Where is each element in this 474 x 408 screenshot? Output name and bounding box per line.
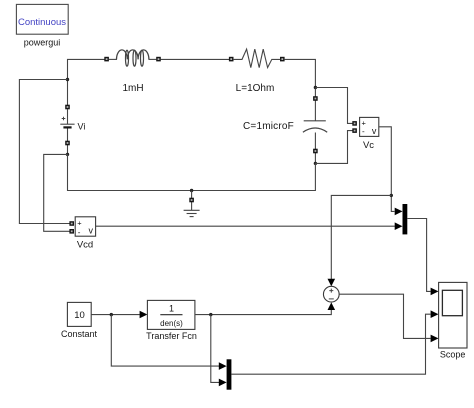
svg-text:v: v <box>88 225 93 235</box>
arrowhead into right mux upper input <box>395 208 403 216</box>
wire capacitor bottom to Vc minus <box>315 131 353 164</box>
svg-text:1: 1 <box>169 304 174 314</box>
wire resistor to capacitor top <box>284 59 315 86</box>
arrowhead into scope input 2 <box>431 310 439 318</box>
resistor L=1Ohm <box>230 49 284 68</box>
arrowhead into right mux lower input <box>395 222 403 230</box>
svg-text:10: 10 <box>74 310 85 321</box>
svg-text:C=1microF: C=1microF <box>243 121 294 132</box>
wire junction to Vcd plus input <box>19 80 70 224</box>
svg-text:-: - <box>362 127 365 136</box>
wire bottom rail <box>68 154 316 190</box>
svg-text:L=1Ohm: L=1Ohm <box>236 83 275 94</box>
wire branch to sum plus input <box>331 195 391 279</box>
wire transfer fcn junction to bottom mux lower input <box>211 315 219 383</box>
node Vc branch junction <box>390 194 393 197</box>
svg-text:powergui: powergui <box>24 38 61 48</box>
arrowhead into scope input 3 <box>431 335 439 343</box>
mux right <box>403 204 408 234</box>
svg-text:Continuous: Continuous <box>18 17 66 28</box>
svg-text:Vi: Vi <box>78 122 86 132</box>
wire sum output to scope input 3 <box>339 294 430 338</box>
svg-text:Vc: Vc <box>363 140 374 151</box>
wire Vc output down to right mux upper input <box>379 127 395 212</box>
svg-text:den(s): den(s) <box>160 319 183 328</box>
svg-text:v: v <box>372 126 377 136</box>
sum block <box>323 286 339 302</box>
node battery bottom junction <box>66 153 69 156</box>
mux bottom <box>227 359 232 389</box>
node constant junction <box>110 313 113 316</box>
voltmeter Vc <box>353 117 379 136</box>
arrowhead into bottom mux upper input <box>219 362 227 370</box>
powergui block <box>16 4 68 34</box>
wire battery top to inductor <box>68 59 107 107</box>
svg-text:-: - <box>78 228 81 237</box>
svg-text:Transfer Fcn: Transfer Fcn <box>146 331 197 341</box>
wire capacitor top to Vc plus <box>315 88 353 124</box>
wire Vcd output to right mux lower input <box>96 225 395 227</box>
svg-text:Scope: Scope <box>440 350 466 360</box>
inductor 1mH <box>105 50 160 66</box>
svg-text:+: + <box>77 219 82 228</box>
svg-text:1mH: 1mH <box>122 83 143 94</box>
constant block <box>67 302 91 326</box>
transfer fcn block <box>147 300 195 329</box>
battery Vi <box>60 105 74 154</box>
arrowhead into sum top <box>328 279 336 287</box>
node battery-top junction <box>66 78 69 81</box>
svg-text:Constant: Constant <box>61 329 98 339</box>
wire inductor to resistor <box>161 58 230 60</box>
wire right mux output to scope input 1 <box>407 219 430 292</box>
node capacitor bottom <box>314 162 317 165</box>
node capacitor top <box>314 86 317 89</box>
wire constant junction to bottom mux upper input <box>111 315 219 367</box>
node transfer fcn junction <box>209 313 212 316</box>
node ground junction <box>190 189 193 192</box>
arrowhead into sum bottom <box>328 302 336 310</box>
wire bottom mux output to scope input 2 <box>231 314 430 374</box>
ground symbol <box>184 191 200 217</box>
arrowhead into bottom mux lower input <box>219 379 227 387</box>
wire transfer fcn output to sum bottom <box>195 310 331 315</box>
voltmeter Vcd <box>70 217 96 237</box>
capacitor C1 <box>303 89 327 163</box>
svg-text:Vcd: Vcd <box>77 240 93 251</box>
arrowhead into transfer fcn <box>140 311 148 319</box>
wire constant to transfer fcn <box>91 314 140 316</box>
arrowhead into scope input 1 <box>431 288 439 296</box>
scope block <box>439 282 467 348</box>
wire junction to Vcd minus input <box>44 154 70 231</box>
